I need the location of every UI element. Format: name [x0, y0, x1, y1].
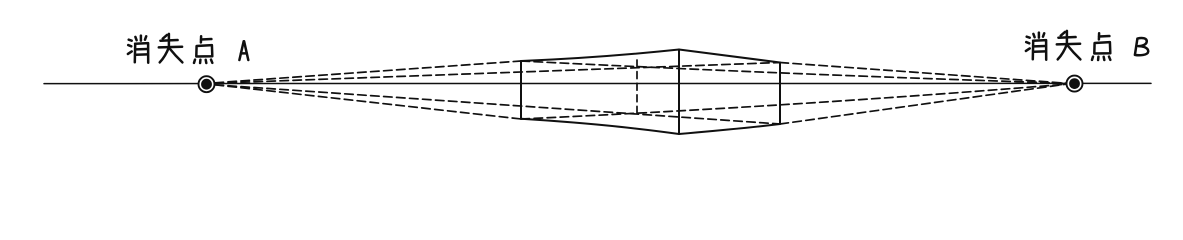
box right vertical edge — [779, 63, 781, 125]
construction line A to left-bottom corner — [215, 85, 521, 119]
box left vertical edge — [520, 61, 522, 119]
construction line right-bottom corner to B — [780, 84, 1066, 124]
hidden back vertical edge of box — [636, 60, 638, 118]
construction line left-bottom corner to B (hidden bottom edge) — [521, 84, 1066, 119]
vanishing point B marker — [1067, 76, 1083, 92]
label 消失点 (left) — [128, 34, 212, 63]
label letter A — [239, 41, 248, 60]
box top-left edge — [521, 50, 679, 62]
box bottom-right edge — [679, 124, 780, 134]
box bottom-left edge — [521, 119, 679, 134]
label 消失点 (right) — [1026, 31, 1110, 60]
vanishing point A marker — [199, 76, 215, 92]
construction line A to right-bottom corner — [215, 85, 780, 124]
horizon line — [44, 82, 1151, 84]
construction line right-top corner to B — [780, 63, 1066, 84]
box top-right edge — [679, 50, 780, 63]
construction line A to left-top corner — [215, 61, 521, 83]
box near vertical edge — [678, 50, 680, 135]
label letter B — [1135, 38, 1148, 55]
construction line A to right-top corner — [215, 63, 780, 84]
construction line left-top corner to B (hidden top edge) — [521, 61, 1066, 83]
